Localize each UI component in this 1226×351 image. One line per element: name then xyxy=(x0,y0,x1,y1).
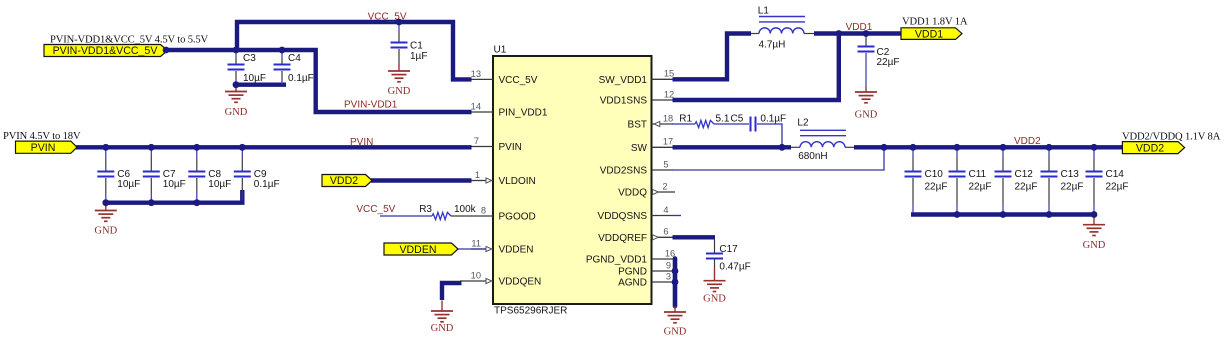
svg-text:C12: C12 xyxy=(1015,169,1034,180)
svg-text:100k: 100k xyxy=(454,204,477,215)
wire L1 to VDD1 flag xyxy=(814,31,902,35)
net label VCC_5V at R3 xyxy=(356,204,395,215)
svg-text:10µF: 10µF xyxy=(163,179,186,190)
svg-text:VDDQEN: VDDQEN xyxy=(499,277,542,288)
pin 5 xyxy=(652,159,674,170)
svg-text:C5: C5 xyxy=(731,113,744,124)
svg-text:C13: C13 xyxy=(1061,169,1080,180)
svg-text:7: 7 xyxy=(474,136,479,146)
wire SW_VDD1 to L1 xyxy=(673,34,752,80)
svg-text:10µF: 10µF xyxy=(243,73,266,84)
pin 16 xyxy=(652,248,676,259)
svg-text:C17: C17 xyxy=(719,244,738,255)
ground C2 xyxy=(855,87,878,121)
svg-text:R1: R1 xyxy=(679,113,692,124)
capacitor C17 xyxy=(706,239,751,272)
wire PVIN-VDD1&VCC_5V flag to PIN_VDD1 xyxy=(166,50,472,112)
capacitor C12 xyxy=(995,149,1038,212)
wire input cap ground rail xyxy=(106,190,243,203)
svg-text:11: 11 xyxy=(471,238,481,248)
wire VDD1SNS xyxy=(673,34,839,101)
capacitor C14 xyxy=(1086,149,1129,212)
pin 2 xyxy=(652,181,676,194)
net label PVIN-VDD1 xyxy=(344,100,398,111)
svg-text:C11: C11 xyxy=(969,169,987,180)
svg-text:GND: GND xyxy=(855,110,878,121)
svg-text:1: 1 xyxy=(475,170,480,180)
svg-text:VDD2: VDD2 xyxy=(1136,142,1164,154)
wire SW to L2 xyxy=(673,145,792,149)
capacitor C2 xyxy=(858,35,900,87)
svg-text:R3: R3 xyxy=(419,204,432,215)
net label VDD2 xyxy=(1014,136,1041,147)
svg-text:PIN_VDD1: PIN_VDD1 xyxy=(499,108,548,119)
svg-text:22µF: 22µF xyxy=(877,57,900,68)
ground C3 C4 xyxy=(225,87,248,118)
ground PGND bus xyxy=(664,306,687,338)
wire L2 to VDD2 flag xyxy=(854,145,1124,149)
capacitor C11 xyxy=(949,149,992,212)
power flag PVIN xyxy=(16,141,78,154)
svg-text:VDD1 1.8V 1A: VDD1 1.8V 1A xyxy=(902,17,968,28)
svg-text:PVIN: PVIN xyxy=(350,137,373,148)
pin 11 xyxy=(471,238,492,251)
wire BST to R1 xyxy=(672,123,695,125)
svg-text:VDDQREF: VDDQREF xyxy=(598,233,647,244)
svg-text:C10: C10 xyxy=(925,169,944,180)
svg-text:PVIN: PVIN xyxy=(31,142,56,154)
wire VDD2 flag to VLDOIN xyxy=(371,178,472,182)
svg-text:PGND: PGND xyxy=(618,267,647,278)
svg-text:GND: GND xyxy=(225,107,248,118)
svg-text:AGND: AGND xyxy=(618,278,647,289)
pin 10 xyxy=(460,270,492,283)
svg-text:22µF: 22µF xyxy=(1061,182,1084,193)
capacitor C13 xyxy=(1041,149,1084,212)
power flag VDD2 input xyxy=(322,175,372,188)
wire output cap ground rail xyxy=(911,212,1096,216)
pin 7 xyxy=(471,136,493,147)
svg-text:22µF: 22µF xyxy=(1106,182,1129,193)
svg-text:14: 14 xyxy=(471,101,481,111)
pin 9 xyxy=(652,260,674,271)
capacitor C3 xyxy=(228,52,267,85)
svg-text:4.7µH: 4.7µH xyxy=(759,40,786,51)
svg-text:PVIN-VDD1&VCC_5V: PVIN-VDD1&VCC_5V xyxy=(53,45,159,57)
svg-text:18: 18 xyxy=(663,113,673,123)
svg-text:3: 3 xyxy=(666,271,671,281)
svg-text:VDDEN: VDDEN xyxy=(499,245,534,256)
inductor L1 xyxy=(751,6,814,51)
annotation VDD2/VDDQ rating xyxy=(1122,132,1221,143)
svg-text:PVIN-VDD1: PVIN-VDD1 xyxy=(344,100,398,111)
pin 14 xyxy=(471,101,493,112)
ground C1 xyxy=(388,64,411,97)
svg-text:2: 2 xyxy=(662,181,667,191)
svg-text:22µF: 22µF xyxy=(925,182,948,193)
wire VDDQSNS stub xyxy=(674,215,681,217)
svg-text:680nH: 680nH xyxy=(798,151,827,162)
wire C5 to SW node xyxy=(757,124,782,145)
svg-text:VLDOIN: VLDOIN xyxy=(499,176,536,187)
svg-text:22µF: 22µF xyxy=(1015,182,1038,193)
svg-text:L1: L1 xyxy=(758,6,770,17)
svg-text:TPS65296RJER: TPS65296RJER xyxy=(494,306,567,317)
svg-text:9: 9 xyxy=(666,260,671,270)
svg-text:0.1µF: 0.1µF xyxy=(254,179,280,190)
ground C17 xyxy=(703,267,726,305)
svg-text:17: 17 xyxy=(663,137,673,147)
ground output caps xyxy=(1083,217,1106,251)
wire VDDQREF to C17 xyxy=(673,235,716,239)
svg-text:0.1µF: 0.1µF xyxy=(760,113,786,124)
svg-text:C3: C3 xyxy=(243,53,256,64)
svg-text:5: 5 xyxy=(663,159,668,169)
svg-text:VDD1: VDD1 xyxy=(846,22,873,33)
pin 6 xyxy=(652,227,674,240)
net label VCC_5V top xyxy=(368,12,407,23)
svg-text:L2: L2 xyxy=(797,118,809,129)
svg-text:GND: GND xyxy=(431,323,454,334)
pin 12 xyxy=(652,89,675,100)
svg-text:10µF: 10µF xyxy=(117,179,140,190)
capacitor C7 xyxy=(143,149,186,200)
svg-text:PVIN 4.5V to 18V: PVIN 4.5V to 18V xyxy=(3,131,81,142)
capacitor C6 xyxy=(97,149,140,200)
ground input caps xyxy=(94,205,117,237)
capacitor C1 xyxy=(391,24,428,64)
annotation PVIN-VDD1&VCC_5V range xyxy=(50,35,209,46)
svg-text:VDD2: VDD2 xyxy=(330,175,358,187)
net label VDD1 xyxy=(846,22,873,33)
svg-text:GND: GND xyxy=(388,86,411,97)
svg-text:6: 6 xyxy=(663,227,668,237)
svg-text:PVIN: PVIN xyxy=(499,142,522,153)
svg-text:0.47µF: 0.47µF xyxy=(719,262,750,273)
wire PVIN xyxy=(76,145,472,149)
svg-text:PGND_VDD1: PGND_VDD1 xyxy=(586,255,648,266)
annotation PVIN range xyxy=(3,131,81,142)
svg-text:VDDQ: VDDQ xyxy=(618,188,647,199)
power flag VDDEN xyxy=(384,243,458,256)
pin 15 xyxy=(652,69,675,80)
ground VDDQEN xyxy=(431,301,454,335)
svg-text:VCC_5V: VCC_5V xyxy=(499,75,538,86)
svg-text:10µF: 10µF xyxy=(208,179,231,190)
svg-text:8: 8 xyxy=(481,205,486,215)
capacitor C4 xyxy=(274,52,314,85)
svg-text:VCC_5V: VCC_5V xyxy=(356,204,395,215)
resistor R1 xyxy=(679,113,730,127)
svg-text:10: 10 xyxy=(471,270,481,280)
svg-text:U1: U1 xyxy=(494,45,507,56)
svg-text:0.1µF: 0.1µF xyxy=(288,73,314,84)
wire VDDEN flag to pin 11 xyxy=(457,248,486,250)
capacitor C10 xyxy=(905,149,948,212)
svg-text:VDD2: VDD2 xyxy=(1014,136,1041,147)
pin 3 xyxy=(652,271,674,282)
net label PVIN xyxy=(350,137,373,148)
capacitor C8 xyxy=(188,149,231,200)
svg-text:PVIN-VDD1&VCC_5V 4.5V to 5.5V: PVIN-VDD1&VCC_5V 4.5V to 5.5V xyxy=(50,35,209,46)
IC U1 TPS65296RJER xyxy=(493,45,652,317)
svg-text:GND: GND xyxy=(94,226,117,237)
wire C3 C4 ground rail xyxy=(236,82,286,86)
wire VDD2SNS xyxy=(673,149,885,170)
svg-text:C4: C4 xyxy=(288,53,301,64)
capacitor C9 xyxy=(234,149,280,200)
svg-text:4: 4 xyxy=(663,205,668,215)
wire VCC_5V rail xyxy=(237,22,472,79)
wire VCC_5V to R3 xyxy=(380,215,432,217)
svg-text:GND: GND xyxy=(703,294,726,305)
svg-text:VDDEN: VDDEN xyxy=(399,244,436,256)
inductor L2 xyxy=(791,118,854,163)
pin 1 xyxy=(471,170,492,183)
svg-text:SW_VDD1: SW_VDD1 xyxy=(599,75,648,86)
wire PGND bus xyxy=(673,259,678,307)
svg-text:GND: GND xyxy=(664,327,687,338)
power flag PVIN-VDD1&VCC_5V xyxy=(44,45,168,58)
svg-text:1µF: 1µF xyxy=(410,51,427,62)
pin 13 xyxy=(471,69,493,80)
svg-text:VDD2SNS: VDD2SNS xyxy=(600,166,648,177)
pin 4 xyxy=(652,205,675,216)
svg-text:C14: C14 xyxy=(1106,169,1125,180)
pin 17 xyxy=(652,137,674,148)
power flag VDD1 output xyxy=(901,28,962,41)
svg-text:GND: GND xyxy=(1083,240,1106,251)
svg-text:VDD2/VDDQ 1.1V 8A: VDD2/VDDQ 1.1V 8A xyxy=(1122,132,1221,143)
svg-text:VDD1SNS: VDD1SNS xyxy=(600,96,648,107)
svg-text:5.1: 5.1 xyxy=(716,113,730,124)
pin 8 xyxy=(471,205,493,216)
wire R1 to C5 xyxy=(714,123,749,125)
svg-text:22µF: 22µF xyxy=(969,182,992,193)
wire VDDQEN to ground xyxy=(442,283,462,300)
svg-text:VDD1: VDD1 xyxy=(915,28,943,40)
wire R3 to PGOOD xyxy=(451,215,472,217)
resistor R3 xyxy=(419,204,476,220)
capacitor C5 xyxy=(731,113,787,131)
svg-text:PGOOD: PGOOD xyxy=(499,212,536,223)
pin 18 xyxy=(652,113,674,126)
svg-text:13: 13 xyxy=(471,69,481,79)
svg-text:SW: SW xyxy=(631,143,648,154)
annotation VDD1 rating xyxy=(902,17,968,28)
svg-text:BST: BST xyxy=(628,120,647,131)
svg-text:VDDQSNS: VDDQSNS xyxy=(598,211,648,222)
power flag VDD2 output xyxy=(1122,142,1184,155)
